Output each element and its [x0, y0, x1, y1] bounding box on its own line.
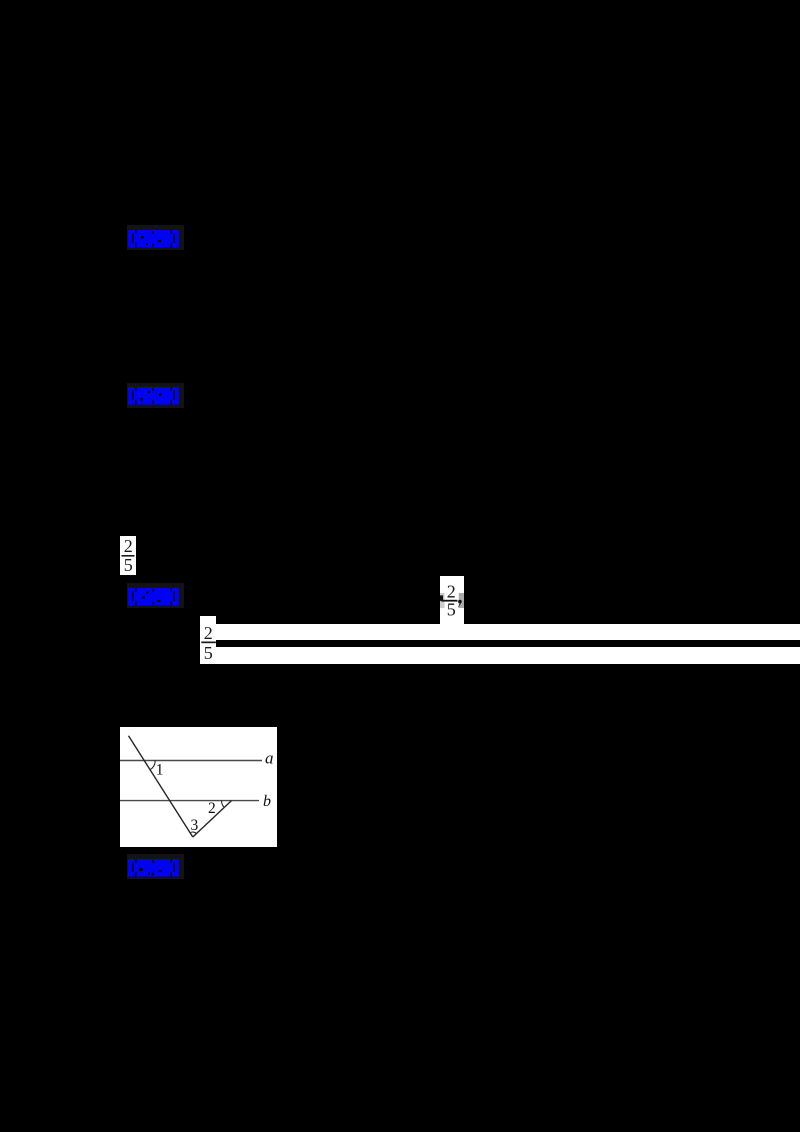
angle 3 arc	[190, 832, 196, 834]
line b	[120, 800, 259, 802]
svg-text:5: 5	[123, 555, 132, 575]
fraction 2/5 box B with comma	[440, 576, 464, 624]
svg-text:2: 2	[447, 581, 456, 601]
white highlighted text line upper	[216, 624, 800, 640]
segment vertex to line b	[193, 801, 232, 837]
geometry figure: parallel lines a,b with transversal, angles 1,2,3	[120, 727, 277, 847]
label block 3 (【解答】 blue marker)	[127, 583, 184, 608]
label block 2 (【分析】 blue marker)	[127, 383, 184, 408]
line a	[120, 760, 262, 762]
svg-text:2: 2	[123, 536, 132, 556]
svg-text:2: 2	[204, 623, 213, 643]
angle 1 arc	[150, 761, 155, 770]
label block 1 (【考点】 blue marker)	[127, 225, 184, 250]
transversal line	[129, 736, 193, 837]
label block 4 (【点评】 blue marker)	[127, 854, 184, 879]
svg-text:1: 1	[156, 761, 164, 778]
fraction 2/5 box C (start of highlighted answer line)	[200, 616, 216, 664]
fraction 2/5 box A	[120, 536, 136, 575]
svg-text:5: 5	[204, 643, 213, 663]
svg-text:2: 2	[208, 800, 216, 817]
angle 2 arc	[222, 801, 225, 808]
svg-text:b: b	[263, 793, 271, 810]
svg-text:3: 3	[191, 817, 199, 834]
white highlighted text line lower	[216, 647, 800, 663]
svg-text:a: a	[265, 749, 274, 768]
svg-text:5: 5	[447, 599, 456, 619]
